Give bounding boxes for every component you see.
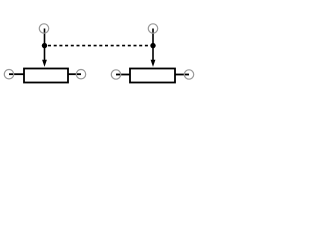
terminal circle R1 wiper top xyxy=(39,24,48,33)
potentiometer R1 body xyxy=(24,69,68,83)
terminal circle R1 right xyxy=(76,70,85,79)
wiper arrow R1 xyxy=(42,60,47,67)
wire R2 wiper stem xyxy=(152,29,154,62)
terminal circle R2 right xyxy=(184,70,193,79)
junction dot right xyxy=(150,43,155,48)
wire R1 wiper stem xyxy=(44,29,46,62)
terminal circle R2 wiper top xyxy=(148,24,157,33)
gang coupling dashed line xyxy=(48,45,151,47)
terminal circle R2 left xyxy=(111,70,120,79)
wiper arrow R2 xyxy=(151,60,156,67)
potentiometer R2 body xyxy=(130,69,175,83)
terminal circle R1 left xyxy=(4,70,13,79)
wire R1 left lead xyxy=(9,73,24,75)
junction dot left xyxy=(42,43,47,48)
wire R1 right lead xyxy=(68,73,81,75)
wire R2 right lead xyxy=(175,74,189,76)
wire R2 left lead xyxy=(116,74,130,76)
